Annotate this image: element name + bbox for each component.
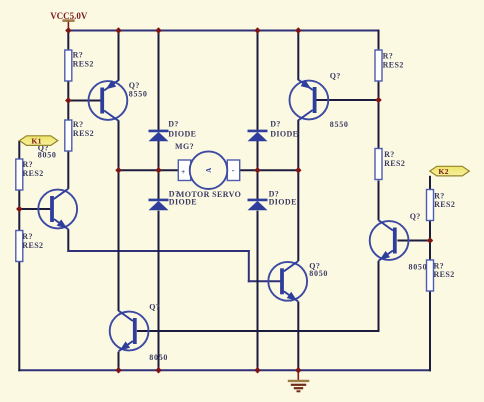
diode D3 <box>149 200 169 210</box>
wire R8 to bottom rail <box>429 291 431 372</box>
svg-text:Q?: Q? <box>330 72 341 81</box>
diode D4 <box>248 200 268 210</box>
label R1 <box>73 51 94 69</box>
wire D4 to bottom rail <box>257 211 259 372</box>
power VCC symbol <box>62 21 74 31</box>
svg-text:+: + <box>181 167 185 176</box>
label R6 <box>384 150 405 168</box>
wire Q1 base <box>67 100 100 102</box>
label R3 <box>23 160 44 178</box>
wire motor right <box>239 169 299 171</box>
wire Q2 base <box>18 208 50 210</box>
svg-text:R?: R? <box>383 52 394 61</box>
label D1 <box>168 120 196 139</box>
svg-text:RES2: RES2 <box>22 241 43 250</box>
wire K1 to R3 <box>18 141 20 160</box>
wire R7 to node B2 <box>429 220 431 241</box>
svg-text:8550: 8550 <box>129 89 148 98</box>
wire Q5 emitter down <box>378 261 380 332</box>
label D4 <box>269 189 297 206</box>
wire motor node to Q4 collector <box>118 169 120 311</box>
wire motor node to D4 <box>257 169 259 199</box>
wire bottom ground rail <box>18 369 431 371</box>
label Q4 8050 <box>149 302 168 362</box>
resistor R7 <box>427 190 434 221</box>
svg-text:MG?: MG? <box>175 142 194 151</box>
svg-text:RES2: RES2 <box>73 129 94 138</box>
resistor R6 <box>375 149 382 180</box>
svg-text:R?: R? <box>73 120 84 129</box>
wire K2 to R7 <box>429 176 431 190</box>
port K2 <box>430 166 470 176</box>
wire Q1 emitter to VCC <box>118 30 120 81</box>
label R5 <box>383 52 404 70</box>
diode D1 <box>149 131 169 141</box>
wire R1 to node A1 <box>67 81 69 101</box>
wire D1 to motor node <box>158 141 160 172</box>
wire bend down to Q6 base <box>248 250 250 282</box>
svg-text:R?: R? <box>384 150 395 159</box>
wire R6 to Q5 collector <box>378 181 380 221</box>
svg-text:RES2: RES2 <box>23 169 44 178</box>
motor MG1 <box>178 151 239 189</box>
wire VCC rail to R5 <box>378 30 380 51</box>
svg-text:DIODE: DIODE <box>269 198 297 207</box>
wire Q5 base <box>397 240 431 242</box>
wire D3 to bottom rail <box>158 211 160 372</box>
wire motor node to Q6 collector <box>297 169 299 261</box>
wire Q6 base <box>248 280 281 282</box>
svg-text:VCC5.0V: VCC5.0V <box>50 11 88 21</box>
svg-text:8050: 8050 <box>38 151 57 160</box>
svg-text:R?: R? <box>73 51 84 60</box>
transistor Q5 8050 <box>370 220 409 261</box>
svg-text:RES2: RES2 <box>434 270 455 279</box>
label Q3 8550 <box>330 72 349 129</box>
svg-text:DIODE: DIODE <box>270 130 298 139</box>
svg-text:K2: K2 <box>438 167 448 176</box>
wire R4 to bottom rail <box>18 262 20 372</box>
svg-text:D?: D? <box>270 120 281 129</box>
svg-text:R?: R? <box>22 232 33 241</box>
wire Q2 emitter to row <box>67 229 69 252</box>
VCC5.0V label <box>50 11 88 21</box>
resistor R5 <box>375 50 382 81</box>
wire Q2 emitter run <box>67 250 250 252</box>
transistor Q4 8050 <box>110 311 149 352</box>
svg-text:MOTOR SERVO: MOTOR SERVO <box>177 190 242 199</box>
wire D2 to motor node <box>257 141 259 172</box>
wire Q3 base <box>317 99 380 101</box>
label Q6 8050 <box>309 262 328 278</box>
diode D2 <box>248 131 268 141</box>
resistor R2 <box>65 120 72 151</box>
svg-text:-: - <box>232 165 235 175</box>
wire node B2 to R8 <box>429 240 431 261</box>
svg-text:8050: 8050 <box>149 353 168 362</box>
svg-text:DIODE: DIODE <box>168 130 196 139</box>
resistor R1 <box>65 50 72 81</box>
transistor Q3 8550 <box>290 80 329 121</box>
svg-text:RES2: RES2 <box>73 59 94 68</box>
label R8 <box>434 261 455 279</box>
wire node A2 to R6 <box>378 99 380 149</box>
wire Q3 collector to motor node <box>297 120 299 171</box>
label R2 <box>73 120 94 138</box>
port K1 <box>20 136 58 146</box>
label D3 <box>169 189 197 206</box>
svg-text:RES2: RES2 <box>384 159 405 168</box>
resistor R8 <box>427 260 434 291</box>
svg-text:R?: R? <box>434 191 445 200</box>
wire Q6 emitter to ground rail <box>297 302 299 372</box>
transistor Q1 8550 <box>89 80 128 121</box>
transistor Q6 8050 <box>268 261 307 302</box>
svg-text:RES2: RES2 <box>383 60 404 69</box>
svg-text:K1: K1 <box>31 137 41 146</box>
svg-text:D?: D? <box>168 120 179 129</box>
wire Q3 emitter to VCC <box>297 30 299 81</box>
wire Q4 base run <box>137 330 380 332</box>
wire motor left <box>118 169 179 171</box>
svg-text:Q?: Q? <box>149 302 160 311</box>
wire Q4 emitter to rail <box>118 352 120 372</box>
svg-text:A: A <box>205 168 213 173</box>
label R4 <box>22 232 43 250</box>
resistor R3 <box>16 159 23 190</box>
label motor MG1 <box>175 142 241 199</box>
wire R2 to Q2 collector <box>67 151 69 189</box>
wire node B1 to R4 <box>18 208 20 231</box>
svg-text:8550: 8550 <box>330 120 349 129</box>
resistor R4 <box>16 231 23 262</box>
wire node A1 to R2 <box>67 100 69 121</box>
svg-text:Q?: Q? <box>410 212 421 221</box>
label R7 <box>434 191 455 209</box>
label D2 <box>270 120 298 139</box>
ground <box>288 370 310 391</box>
wire VCC rail to D2 <box>257 30 259 131</box>
wire R3 to node B1 <box>18 190 20 209</box>
wire R5 to node A2 <box>378 81 380 101</box>
svg-text:8050: 8050 <box>309 269 328 278</box>
wire VCC top rail <box>67 30 379 32</box>
svg-text:8050: 8050 <box>409 263 428 272</box>
label Q1 8550 <box>129 81 148 98</box>
label Q2 8050 <box>38 143 57 159</box>
wire Q1 collector to motor node <box>118 120 120 171</box>
wire motor node to D3 <box>158 169 160 199</box>
wire VCC rail to D1 <box>158 30 160 131</box>
wire VCC rail to R1 <box>67 30 69 51</box>
svg-text:R?: R? <box>434 261 445 270</box>
svg-text:R?: R? <box>23 160 34 169</box>
transistor Q2 8050 <box>38 189 77 230</box>
svg-text:RES2: RES2 <box>434 200 455 209</box>
label Q5 8050 <box>409 212 428 272</box>
